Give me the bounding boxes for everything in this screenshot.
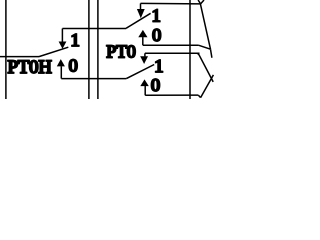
wire: dip of bottom net xyxy=(198,95,200,97)
svg-text:1: 1 xyxy=(152,5,161,25)
svg-text:0: 0 xyxy=(69,55,78,75)
wire: vertical bus C xyxy=(189,0,191,99)
wire: PT0H common out to left edge xyxy=(0,56,39,58)
svg-text:0: 0 xyxy=(152,25,161,45)
wire: horizontal net y=78.6 xyxy=(61,78,126,80)
switch PT0H blade xyxy=(39,47,68,56)
wire: bend of y=53.3 net down-right xyxy=(198,53,214,82)
wire: top-edge leg left xyxy=(198,0,201,4)
switch PT0 arrowhead input 0 xyxy=(138,30,147,37)
wire: diagonal from top junction down right xyxy=(200,4,210,49)
svg-text:0: 0 xyxy=(151,75,160,95)
switch PT0H input-0 riser wire xyxy=(60,66,62,78)
wire: horizontal net y=45.2 xyxy=(143,44,199,46)
switch PT0H arrowhead input 0 xyxy=(57,59,65,66)
switch S3 blade xyxy=(126,65,154,79)
wire: horizontal net y=28.5 xyxy=(62,28,126,30)
switch S3 arrowhead input 0 xyxy=(140,79,149,86)
wire: vertical bus A xyxy=(88,0,90,99)
wire: vertical bus B xyxy=(97,0,99,99)
wire: top-edge leg right xyxy=(201,0,204,4)
svg-text:PT0: PT0 xyxy=(106,41,136,61)
switch PT0 blade xyxy=(126,13,151,28)
switch PT0 input-1 drop wire xyxy=(140,3,142,10)
switch S3 input-0 riser wire xyxy=(144,86,146,95)
switch S3 arrowhead input 1 xyxy=(140,56,148,64)
wire: horizontal net y=95.2 xyxy=(145,94,198,96)
svg-text:1: 1 xyxy=(154,56,163,76)
switch PT0H input-1 drop wire xyxy=(61,29,63,43)
wire: junction stub down xyxy=(211,49,212,58)
wire: S3 input-1 horizontal y=53.3 xyxy=(145,52,200,54)
svg-text:1: 1 xyxy=(71,30,80,50)
wire: bend of y=45.2 net to junction xyxy=(198,45,210,49)
svg-text:PT0H: PT0H xyxy=(8,58,52,78)
switch PT0 arrowhead input 1 xyxy=(137,9,145,18)
wire: left vertical bus xyxy=(5,0,7,99)
switch PT0H arrowhead input 1 xyxy=(59,42,67,49)
wire: PT0 input-1 horizontal y=3.4 xyxy=(141,2,201,5)
switch S3 input-1 drop wire xyxy=(144,53,146,56)
wire: bottom net rising diagonal xyxy=(201,75,214,98)
switch PT0 input-0 riser wire xyxy=(142,37,144,45)
